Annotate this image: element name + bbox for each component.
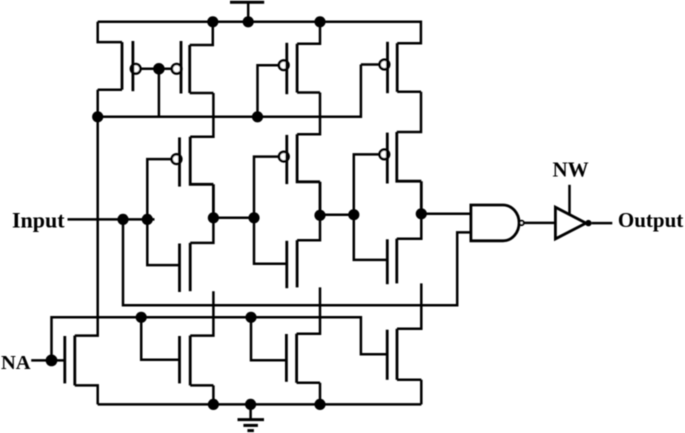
svg-text:Input: Input bbox=[12, 208, 65, 233]
svg-text:Output: Output bbox=[618, 208, 683, 232]
svg-text:NA: NA bbox=[1, 352, 31, 374]
svg-text:NW: NW bbox=[553, 158, 589, 182]
